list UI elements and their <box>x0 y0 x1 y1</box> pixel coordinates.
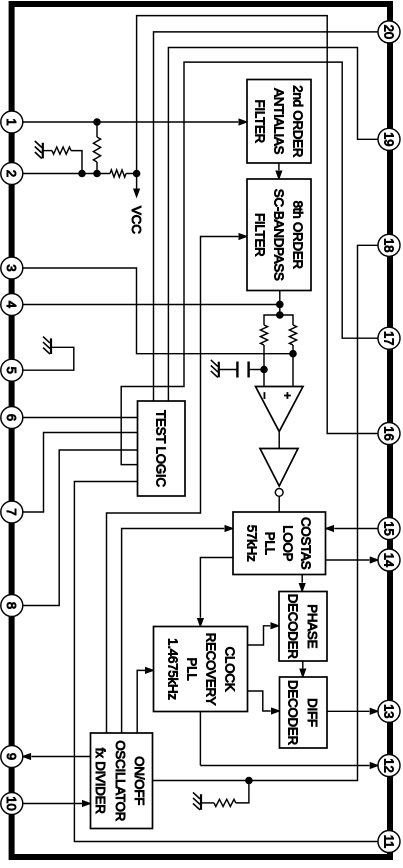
svg-text:14: 14 <box>381 553 396 567</box>
svg-text:DECODER: DECODER <box>285 594 300 659</box>
svg-text:PLL: PLL <box>262 532 277 555</box>
svg-text:9: 9 <box>4 753 19 760</box>
svg-text:+: + <box>280 392 294 399</box>
svg-text:3: 3 <box>4 264 19 271</box>
svg-text:10: 10 <box>4 796 19 810</box>
svg-text:16: 16 <box>381 426 396 440</box>
svg-text:FILTER: FILTER <box>252 99 267 143</box>
svg-text:11: 11 <box>381 835 396 849</box>
svg-text:18: 18 <box>381 238 396 252</box>
svg-text:12: 12 <box>381 758 396 772</box>
svg-text:20: 20 <box>381 25 396 39</box>
svg-text:19: 19 <box>381 132 396 146</box>
svg-text:COSTAS: COSTAS <box>298 517 313 570</box>
svg-text:1: 1 <box>4 118 19 125</box>
svg-text:fx DIVIDER: fx DIVIDER <box>93 748 108 814</box>
svg-text:SC-BANDPASS: SC-BANDPASS <box>271 189 286 281</box>
svg-text:5: 5 <box>4 367 19 374</box>
svg-text:2nd ORDER: 2nd ORDER <box>290 85 305 157</box>
svg-text:57kHz: 57kHz <box>244 525 259 562</box>
svg-text:13: 13 <box>381 704 396 718</box>
svg-text:7: 7 <box>4 508 19 515</box>
svg-text:2: 2 <box>4 170 19 177</box>
svg-text:LOOP: LOOP <box>280 525 295 561</box>
svg-text:OSCILLATOR: OSCILLATOR <box>113 740 128 821</box>
svg-text:FILTER: FILTER <box>252 213 267 257</box>
svg-text:PHASE: PHASE <box>305 604 320 648</box>
svg-text:VCC: VCC <box>129 206 144 234</box>
svg-text:4: 4 <box>4 301 19 308</box>
svg-text:15: 15 <box>381 521 396 535</box>
svg-text:−: − <box>257 392 271 399</box>
svg-text:DIFF: DIFF <box>305 698 320 727</box>
svg-text:CLOCK: CLOCK <box>222 647 237 692</box>
svg-text:PLL: PLL <box>184 657 199 680</box>
svg-text:8th ORDER: 8th ORDER <box>290 201 305 269</box>
svg-text:DECODER: DECODER <box>285 680 300 745</box>
svg-text:8: 8 <box>4 602 19 609</box>
svg-text:ANTIALIAS: ANTIALIAS <box>271 88 286 154</box>
svg-text:TEST LOGIC: TEST LOGIC <box>154 410 169 487</box>
svg-text:1.4675kHz: 1.4675kHz <box>165 638 180 700</box>
svg-text:ON/OFF: ON/OFF <box>132 756 147 805</box>
svg-text:17: 17 <box>381 331 396 345</box>
svg-text:RECOVERY: RECOVERY <box>203 633 218 706</box>
svg-text:6: 6 <box>4 414 19 421</box>
